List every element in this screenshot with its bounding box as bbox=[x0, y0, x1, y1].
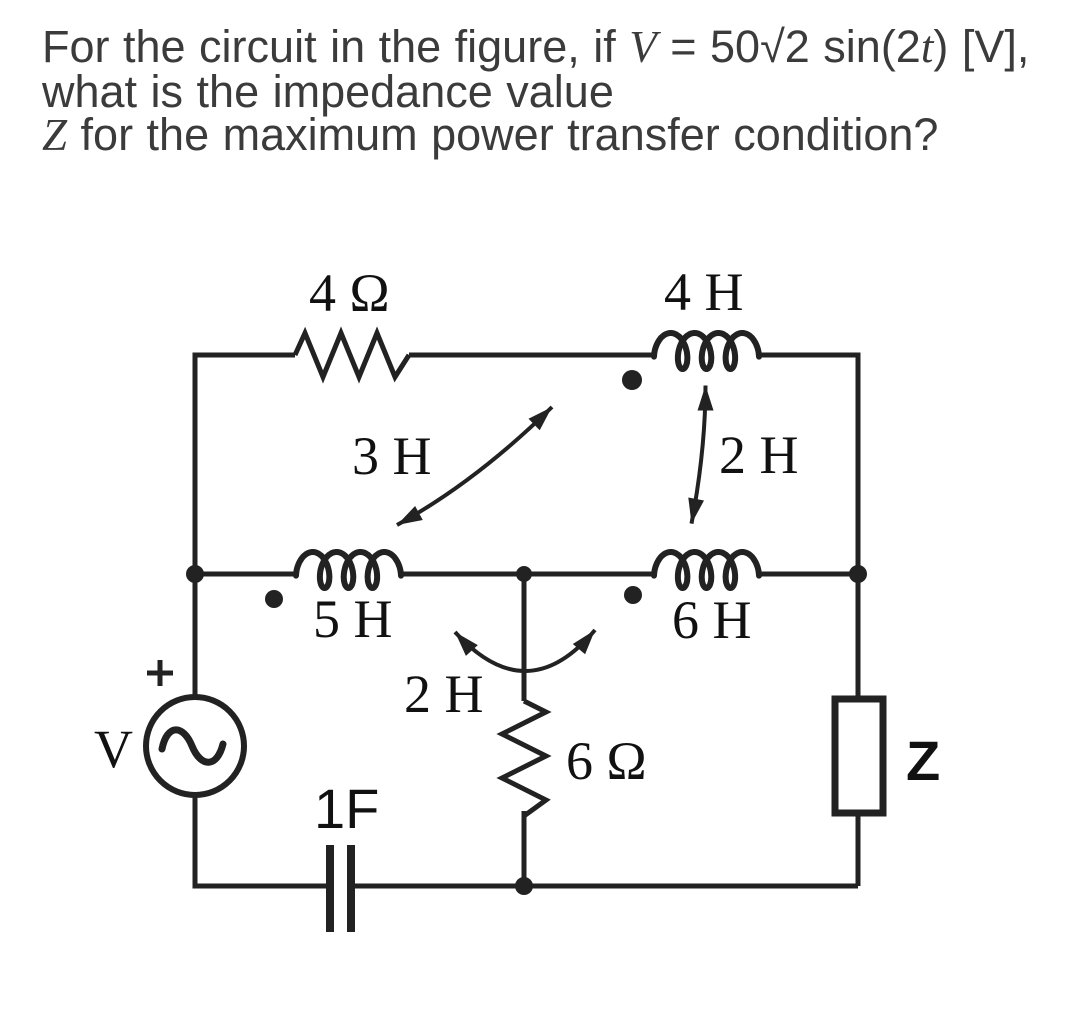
svg-text:4 Ω: 4 Ω bbox=[309, 263, 390, 323]
svg-text:6 Ω: 6 Ω bbox=[566, 731, 647, 791]
svg-text:V: V bbox=[94, 719, 133, 779]
svg-text:6 H: 6 H bbox=[672, 590, 752, 650]
svg-text:2 H: 2 H bbox=[404, 664, 484, 724]
svg-text:5 H: 5 H bbox=[313, 589, 393, 649]
svg-text:4 H: 4 H bbox=[664, 262, 744, 322]
svg-text:1F: 1F bbox=[314, 777, 379, 840]
svg-text:2 H: 2 H bbox=[719, 425, 799, 485]
svg-text:3 H: 3 H bbox=[352, 426, 432, 486]
svg-text:Z: Z bbox=[906, 729, 940, 792]
